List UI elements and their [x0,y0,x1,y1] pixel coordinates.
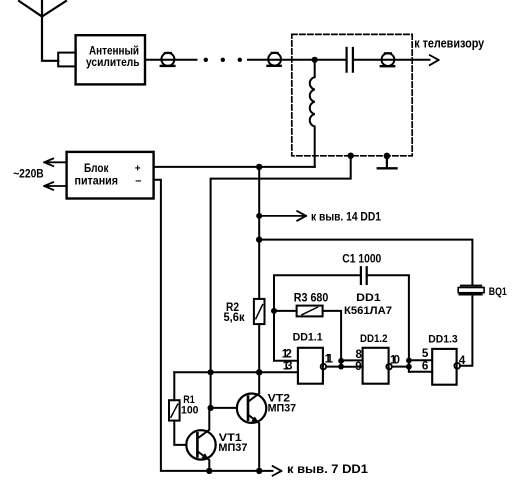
svg-text:10: 10 [390,353,400,366]
pin labels [282,347,466,373]
svg-text:BQ1: BQ1 [489,286,507,298]
wire amp output [145,59,197,61]
transistor VT2 [237,372,266,471]
wire capacitor to XW3 [353,59,430,61]
antenna WA1 [19,1,66,61]
label "Антенный усилитель" [86,44,140,69]
svg-text:C1 1000: C1 1000 [342,253,381,266]
wire C1 right to DD1.2 out [367,275,409,360]
wire shield to base rail [211,156,351,408]
node VT2 base [208,405,214,411]
label "Блок питания" [75,161,142,187]
label R2 5,6k [224,301,245,324]
arrow to TV [430,55,439,65]
wire C1 left to pin12 [274,275,361,361]
gate DD1.2 [363,348,392,384]
label VT1 МП37 [218,432,247,454]
wire R2 bottom [258,324,260,372]
node VT2 collector [256,369,262,375]
mains arrow upper [44,159,66,167]
svg-text:DD1: DD1 [356,292,381,304]
arrow to pin 14 [259,211,306,221]
svg-text:~220В: ~220В [13,166,44,180]
svg-text:13: 13 [283,359,293,372]
connector XW1 [161,53,175,66]
svg-text:–: – [135,175,141,187]
node crystal feed tap [256,236,262,242]
node shield junction [348,153,354,159]
svg-text:5,6к: 5,6к [224,311,245,324]
svg-text:усилитель: усилитель [86,55,140,69]
node DD1.1 out b [338,364,344,370]
svg-text:к выв. 14 DD1: к выв. 14 DD1 [311,210,381,224]
antenna amplifier box [76,35,145,84]
node R3 left [271,308,277,314]
resistor R2 [254,299,265,324]
wire DD1.2 output [392,360,409,372]
node R1 rail [208,369,214,375]
cable break dots [204,58,242,62]
svg-text:6: 6 [422,360,429,373]
gate DD1.3 [432,349,460,385]
svg-text:DD1.1: DD1.1 [293,332,323,344]
wire node line y372 [174,371,298,373]
svg-text:к выв. 7 DD1: к выв. 7 DD1 [287,462,368,476]
node pin14 tap [256,213,262,219]
wire cable to capacitor [248,59,346,61]
wire to DD1.3 inputs [409,360,432,372]
power supply box [67,152,154,199]
node DD1.1 out a [338,358,344,364]
svg-text:К561ЛА7: К561ЛА7 [344,305,392,317]
wire plus rail to coil [154,166,315,168]
svg-text:МП37: МП37 [268,403,297,415]
node VT2 emitter bottom [256,468,262,474]
svg-text:к телевизору: к телевизору [414,36,484,50]
label R1 100 [181,394,199,416]
svg-text:5: 5 [422,347,429,360]
connector XW3 [381,53,395,66]
label VT2 МП37 [268,393,297,415]
arrow to pin 7 [273,466,282,476]
crystal BQ1 [458,286,484,295]
transistor VT1 [186,408,215,471]
wire DD1.3 output to crystal [460,295,472,366]
antenna plug [58,53,75,67]
connector XW2 [268,53,282,66]
svg-text:4: 4 [459,354,466,367]
wire R3 right lead [323,311,342,361]
wire minus rail and bottom common [154,180,273,471]
svg-text:МП37: МП37 [218,442,247,454]
shield dashed box [292,34,412,155]
wire R3 left lead [274,310,297,312]
capacitor C1 [361,267,367,284]
wire to crystal top [259,240,472,286]
wire plus rail down [258,167,260,299]
svg-text:9: 9 [355,360,362,373]
wire DD1.1 output [326,361,341,367]
svg-text:питания: питания [75,173,119,187]
node DD1.2 out b [406,364,412,370]
wire to DD1.2 inputs [341,360,363,366]
mains arrow lower [44,182,66,190]
label DD1 К561ЛА7 [344,292,392,317]
capacitor (coax separating) [347,48,353,72]
ground [378,153,397,169]
svg-text:11: 11 [325,352,334,365]
inductor L1 [310,60,315,167]
svg-text:100: 100 [181,404,199,416]
node VT1 emitter bottom [206,468,212,474]
svg-text:R3 680: R3 680 [294,291,329,304]
svg-text:+: + [135,164,141,175]
node DD1.2 out a [406,358,412,364]
node coil top junction [312,57,318,63]
svg-text:DD1.3: DD1.3 [428,334,458,346]
resistor R1 [169,372,186,445]
gate DD1.1 [298,348,326,384]
node plus rail [256,164,262,170]
svg-text:DD1.2: DD1.2 [360,333,388,345]
resistor R3 [297,306,323,317]
